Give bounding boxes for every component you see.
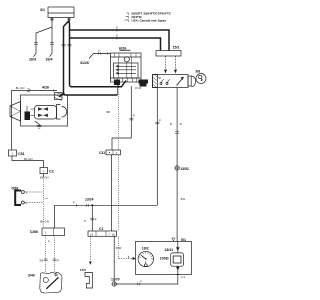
svg-text:10: 10 <box>112 232 116 236</box>
svg-text:B-W: B-W <box>116 246 122 250</box>
svg-text:***: *** <box>45 197 48 201</box>
svg-text:P: P <box>133 114 135 118</box>
svg-text:3/8: 3/8 <box>195 69 200 73</box>
svg-text:6/26: 6/26 <box>119 46 126 50</box>
svg-text:13/41: 13/41 <box>164 248 173 252</box>
svg-text:P: P <box>73 201 75 205</box>
svg-text:C1: C1 <box>99 227 103 231</box>
svg-text:-R: -R <box>179 122 182 126</box>
svg-text:P: P <box>95 217 97 221</box>
svg-text:BL-GN: BL-GN <box>24 157 33 161</box>
svg-text:15 30: 15 30 <box>135 87 142 90</box>
svg-text:18/2: 18/2 <box>142 247 149 251</box>
svg-text:15/1: 15/1 <box>173 45 180 49</box>
svg-text:B-R: B-R <box>181 197 186 201</box>
svg-text:USA, Canada and Japan: USA, Canada and Japan <box>132 19 167 23</box>
svg-text:C31: C31 <box>99 151 105 155</box>
svg-text:13/52: 13/52 <box>180 167 189 171</box>
svg-text:14: 14 <box>90 232 94 236</box>
svg-text:13/79: 13/79 <box>111 277 120 281</box>
svg-text:4/26: 4/26 <box>42 86 49 90</box>
svg-text:C2: C2 <box>49 170 54 174</box>
svg-text:3/1: 3/1 <box>40 8 45 12</box>
svg-text:13/24: 13/24 <box>85 197 94 201</box>
svg-text:31/26: 31/26 <box>80 61 89 65</box>
svg-text:3/40: 3/40 <box>28 273 35 277</box>
svg-text:26/3: 26/3 <box>29 58 36 62</box>
svg-text:D59: D59 <box>12 186 19 190</box>
svg-text:P: P <box>57 258 59 262</box>
svg-text:***): ***) <box>124 19 129 23</box>
svg-text:26/4: 26/4 <box>46 58 53 62</box>
svg-text:5/1: 5/1 <box>181 238 186 242</box>
svg-text:P: P <box>159 119 161 123</box>
svg-text:C:1: C:1 <box>181 275 186 279</box>
svg-text:B: B <box>170 122 172 126</box>
svg-text:17/5: 17/5 <box>80 268 86 272</box>
svg-text:C51: C51 <box>18 152 25 156</box>
svg-text:BL-GN: BL-GN <box>40 219 49 223</box>
svg-text:100Ω: 100Ω <box>160 257 169 261</box>
svg-text:BL-GN: BL-GN <box>16 86 25 90</box>
svg-text:SB: SB <box>39 258 43 262</box>
svg-text:P: P <box>48 239 50 243</box>
svg-text:C266: C266 <box>30 230 38 234</box>
svg-text:SB: SB <box>106 110 110 114</box>
svg-text:BL-GN: BL-GN <box>40 175 49 179</box>
svg-text:P: P <box>84 219 86 223</box>
